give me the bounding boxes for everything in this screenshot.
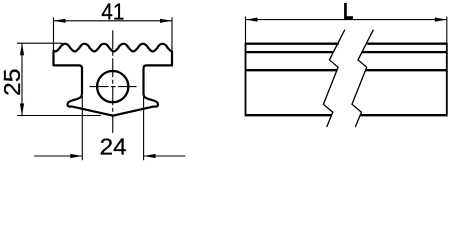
dimension L arrow right: [435, 18, 447, 22]
dimension 24 extension line right: [143, 96, 145, 160]
svg-text:24: 24: [100, 134, 127, 160]
side view knurl line left part: [246, 51, 334, 53]
side view right edge: [446, 43, 448, 117]
dimension L extension line right: [446, 17, 448, 43]
dimension 25 arrow bottom: [20, 104, 24, 116]
centerline vertical: [112, 30, 114, 133]
dimension 41 arrow left: [54, 19, 66, 23]
dimension L arrow left: [246, 18, 258, 22]
dimension 25 extension line bottom: [17, 115, 101, 117]
dimension 41 extension line left: [53, 17, 55, 50]
side view left edge: [245, 43, 247, 117]
dimension 24 extension line left: [81, 96, 83, 160]
side view shoulder line right part: [365, 69, 446, 71]
side view bottom edge left part: [246, 114, 332, 116]
dimension 25 extension line top: [17, 42, 63, 44]
dimension 25 line: [21, 43, 23, 115]
dimension 25 arrow top: [20, 43, 24, 55]
side view top edge left part: [246, 43, 339, 45]
dimension 24 line right segment: [144, 155, 186, 157]
dimension 24 arrow right: [144, 154, 156, 158]
dimension 41 extension line right: [171, 17, 173, 51]
dimension L extension line left: [245, 17, 247, 43]
svg-text:25: 25: [0, 68, 25, 96]
side view bottom edge right part: [360, 114, 447, 116]
break line left: [323, 30, 344, 127]
dimension L line: [246, 19, 447, 21]
break line right: [352, 30, 373, 127]
dimension 41 arrow right: [160, 19, 172, 23]
svg-text:L: L: [343, 0, 354, 24]
side view knurl line right part: [362, 51, 447, 53]
hole: [97, 71, 128, 102]
profile cross-section outline: [54, 44, 173, 116]
centerline horizontal: [90, 86, 137, 88]
side view top edge right part: [367, 43, 447, 45]
dimension 24 arrow left: [70, 154, 82, 158]
dimension 24 line left segment: [34, 155, 82, 157]
svg-text:41: 41: [101, 0, 124, 25]
side view shoulder line left part: [246, 69, 337, 71]
dimension 41 line: [54, 20, 173, 22]
